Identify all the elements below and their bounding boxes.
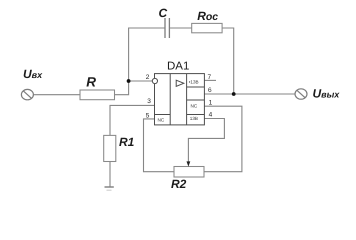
svg-text:7: 7 [208,74,212,81]
svg-text:3: 3 [147,98,151,105]
svg-text:NC: NC [158,117,165,122]
svg-text:C: C [159,6,168,20]
svg-text:2: 2 [146,74,150,81]
svg-text:13B: 13B [190,116,198,121]
svg-text:Roc: Roc [197,9,218,23]
svg-text:NC: NC [191,103,198,108]
svg-text:Uвых: Uвых [313,87,341,101]
svg-text:•13B: •13B [189,79,199,84]
svg-text:R: R [86,75,96,90]
svg-text:R1: R1 [119,135,135,149]
svg-text:R2: R2 [171,177,187,191]
svg-text:4: 4 [209,112,213,119]
svg-text:Uвх: Uвх [23,67,43,81]
svg-text:DA1: DA1 [167,61,189,73]
svg-text:5: 5 [146,113,150,120]
svg-text:6: 6 [208,87,212,94]
svg-text:1: 1 [209,100,213,107]
